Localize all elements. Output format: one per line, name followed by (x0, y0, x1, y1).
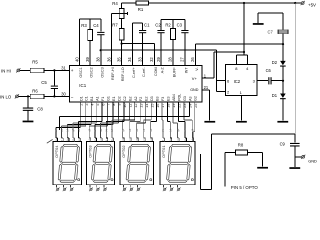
svg-text:A1: A1 (96, 96, 100, 100)
svg-text:28: 28 (168, 57, 173, 62)
wire D2 to D1 (282, 67, 284, 94)
ground for IC2 pin 1 (236, 121, 247, 123)
svg-text:R6: R6 (32, 89, 38, 94)
svg-text:R2: R2 (165, 23, 171, 28)
svg-text:+: + (71, 68, 74, 73)
wire +5V drop to IC2 (237, 3, 248, 65)
svg-text:C1: C1 (144, 23, 150, 28)
wire C1 top hook to pin 34 (132, 23, 142, 65)
svg-text:F1: F1 (101, 97, 105, 101)
ground for IC1 pin 21 (204, 121, 215, 123)
svg-text:d4: d4 (88, 128, 92, 131)
terminal IN LO (0, 94, 19, 99)
display DIS3 (OPT03) (86, 142, 114, 192)
svg-text:c4: c4 (142, 128, 146, 131)
wire R4 wiper to pin 36 (111, 13, 113, 65)
svg-text:OPT02: OPT02 (121, 145, 126, 157)
display DIS2 (OPT02) (120, 142, 154, 192)
svg-text:REF-LO: REF-LO (121, 67, 125, 81)
svg-text:−: − (71, 95, 74, 100)
svg-text:e4: e4 (128, 128, 132, 131)
wire last IC pin to display 1 anode (193, 102, 195, 142)
svg-text:D3: D3 (150, 96, 154, 101)
resistor R7 (112, 23, 124, 41)
junction C8/IN LO (27, 95, 29, 97)
resistor R8 (235, 143, 247, 155)
IC1 top pin numbers and labels (74, 57, 199, 82)
junction V+ line / +5V drop (243, 51, 245, 53)
svg-text:D1: D1 (79, 96, 83, 101)
svg-text:34: 34 (127, 57, 132, 62)
svg-text:COM: COM (154, 67, 158, 76)
junction C6 / diode node (282, 80, 284, 82)
svg-text:e4: e4 (77, 128, 81, 131)
svg-text:OSC1: OSC1 (79, 67, 83, 77)
svg-text:G1: G1 (107, 96, 111, 101)
svg-text:IN LO: IN LO (0, 94, 12, 99)
svg-text:A3: A3 (188, 96, 192, 100)
resistor R6 (18, 89, 69, 99)
wire line B to IC2 (101, 50, 217, 91)
svg-text:OPT01: OPT01 (161, 145, 166, 157)
wire R4 bottom to R7 top (121, 18, 123, 28)
junction line A / D2-C7 node (282, 43, 284, 45)
svg-text:IC2: IC2 (234, 79, 241, 84)
svg-text:D2: D2 (272, 60, 278, 65)
ground for C8 (23, 121, 34, 123)
wire long common net (60, 102, 190, 130)
capacitor C7 (268, 30, 289, 35)
svg-text:PIN 5 / OPTO: PIN 5 / OPTO (231, 185, 259, 190)
svg-text:V+: V+ (192, 76, 198, 81)
svg-text:C6: C6 (266, 68, 272, 73)
ground for C7 (253, 13, 264, 25)
resistor R3 (81, 19, 92, 65)
svg-text:C-ref+: C-ref+ (132, 67, 136, 78)
svg-text:C8: C8 (37, 107, 43, 112)
svg-text:R7: R7 (112, 23, 118, 28)
svg-text:b4: b4 (66, 128, 70, 131)
svg-text:D1: D1 (272, 93, 278, 98)
wire stub display1 corner (47, 139, 53, 143)
display DIS1 (OPT01) (160, 142, 195, 192)
wire display anode jog (200, 134, 211, 190)
svg-text:C4: C4 (93, 23, 99, 28)
svg-text:F3: F3 (161, 97, 165, 101)
svg-text:OSC2: OSC2 (90, 67, 94, 77)
svg-text:INT: INT (185, 67, 189, 74)
svg-text:a4: a4 (99, 128, 103, 131)
svg-text:AB4: AB4 (172, 94, 176, 101)
svg-text:E3: E3 (167, 96, 171, 100)
svg-text:c4: c4 (93, 128, 97, 131)
svg-text:d4: d4 (135, 128, 139, 131)
wire IC2 pin 1 to ground (240, 96, 242, 121)
svg-text:G2: G2 (194, 96, 198, 101)
svg-text:F2: F2 (139, 97, 143, 101)
display DIS4 (OPT04) (53, 142, 81, 192)
node C2/R2/C3 loop top (161, 18, 185, 20)
wire IC2 pins 2,6 hook (216, 81, 225, 92)
svg-text:21: 21 (204, 85, 209, 90)
node R3/C4 loop top (80, 18, 101, 20)
capacitor C9 (280, 134, 300, 167)
svg-text:A2: A2 (134, 96, 138, 100)
svg-text:39: 39 (85, 57, 90, 62)
wire R8 right to ground (248, 152, 263, 166)
diode D2 (272, 60, 286, 66)
svg-text:C2: C2 (123, 96, 127, 101)
svg-text:R4: R4 (112, 1, 118, 6)
IC1 bottom pin labels and numbers (79, 94, 198, 108)
svg-text:C3: C3 (177, 23, 183, 28)
svg-text:POL: POL (177, 94, 181, 101)
svg-text:IC1: IC1 (79, 83, 86, 88)
svg-text:B1: B1 (90, 96, 94, 100)
wire R8 left (225, 152, 236, 186)
svg-text:OPT04: OPT04 (54, 145, 59, 158)
wire D1 to ground (282, 99, 284, 121)
wire C7 to D2 (282, 34, 284, 61)
wire R4 top to R1 (122, 3, 136, 9)
capacitor C4 (93, 19, 104, 65)
svg-text:g4: g4 (71, 128, 75, 131)
ground for D1 (277, 121, 288, 123)
resistor R5 (20, 59, 70, 72)
pin 1 V+ wire (202, 52, 244, 78)
capacitor C3 (177, 19, 189, 65)
wire S1 drop to pin 32 (153, 44, 155, 66)
svg-text:e4: e4 (183, 128, 187, 131)
svg-text:OSC3: OSC3 (100, 67, 104, 77)
svg-text:b4: b4 (169, 128, 173, 131)
svg-text:31: 31 (61, 65, 66, 70)
svg-text:a4: a4 (54, 128, 58, 131)
wire +5V right rail (294, 3, 296, 134)
svg-text:30: 30 (61, 91, 66, 96)
pin 21 GND wire (202, 85, 210, 121)
junction C5/IN HI (53, 69, 55, 71)
op-amp IC1 ICL7107 box (70, 66, 202, 103)
svg-text:C7: C7 (268, 30, 274, 35)
svg-text:40: 40 (74, 57, 79, 62)
junction line B at OSC3 column (100, 49, 102, 51)
svg-text:b4: b4 (110, 128, 114, 131)
svg-text:REF-HI: REF-HI (111, 67, 115, 80)
wire IC2 pin 3 (257, 80, 268, 82)
svg-text:R5: R5 (32, 59, 38, 64)
svg-text:38: 38 (96, 57, 101, 62)
potentiometer R4 (112, 1, 128, 18)
svg-text:GND: GND (190, 88, 199, 92)
svg-text:E1: E1 (112, 96, 116, 100)
svg-text:+5V: +5V (308, 2, 316, 7)
svg-text:g4: g4 (176, 128, 180, 131)
svg-text:G3: G3 (183, 96, 187, 101)
terminal GND tap (295, 155, 317, 164)
pin 31 IN-HI label (61, 65, 66, 70)
svg-text:OPT03: OPT03 (88, 145, 93, 157)
svg-text:GND: GND (308, 158, 317, 163)
terminal IN HI (1, 68, 20, 73)
svg-text:C1: C1 (85, 96, 89, 101)
diode D1 (272, 93, 286, 99)
resistor R2 (165, 19, 175, 65)
svg-text:C-ref-: C-ref- (142, 67, 146, 77)
svg-text:C5: C5 (41, 80, 47, 85)
ground for C9 (289, 167, 300, 169)
wire REF-LO bus S1 (122, 43, 155, 45)
svg-text:R3: R3 (81, 23, 87, 28)
svg-text:d4: d4 (191, 128, 195, 131)
capacitor C1 (139, 23, 150, 66)
wire +5V top rail (149, 2, 302, 4)
svg-text:a4: a4 (149, 128, 153, 131)
resistor R1 (136, 1, 149, 12)
svg-text:36: 36 (106, 57, 111, 62)
svg-text:IN HI: IN HI (1, 68, 11, 73)
ground for R8 (257, 167, 268, 169)
wire GND rail horizontal (211, 133, 295, 135)
pin 30 IN-LO label (61, 91, 66, 96)
capacitor C8 (23, 96, 44, 120)
svg-text:B3: B3 (156, 96, 160, 100)
junction top rail / IC2 supply drop (243, 2, 245, 4)
svg-text:26: 26 (190, 57, 195, 62)
capacitor C6 (266, 68, 283, 84)
svg-text:32: 32 (149, 57, 154, 62)
label PIN 5 / OPTO (231, 185, 259, 190)
timer IC2 box (226, 65, 257, 96)
svg-text:R8: R8 (238, 143, 244, 148)
wire V- line A (195, 44, 283, 65)
svg-text:27: 27 (180, 57, 185, 62)
svg-text:B2: B2 (128, 96, 132, 100)
capacitor C5 (41, 70, 58, 96)
svg-text:R1: R1 (138, 7, 144, 12)
junction top rail / right +5V rail (294, 2, 296, 4)
svg-text:C9: C9 (280, 142, 286, 147)
svg-text:35: 35 (116, 57, 121, 62)
junction R7/REF-LO bus (121, 43, 123, 45)
svg-text:D2: D2 (117, 96, 121, 101)
svg-text:E2: E2 (145, 96, 149, 100)
svg-text:C2: C2 (155, 23, 161, 28)
junction C5/IN LO (53, 95, 55, 97)
svg-text:29: 29 (156, 57, 161, 62)
capacitor C2 (155, 19, 164, 65)
svg-text:g4: g4 (121, 128, 125, 131)
wire C7 top hook (258, 13, 283, 30)
wire R7 bottom to pin 35 (121, 40, 123, 66)
svg-text:A-Z: A-Z (161, 67, 165, 74)
svg-text:33: 33 (137, 57, 142, 62)
wire loop to pin 40 (79, 19, 81, 65)
svg-text:BUFF: BUFF (173, 67, 177, 78)
terminal +5V (301, 1, 316, 8)
wires IC1 to displays mesh (54, 102, 194, 142)
